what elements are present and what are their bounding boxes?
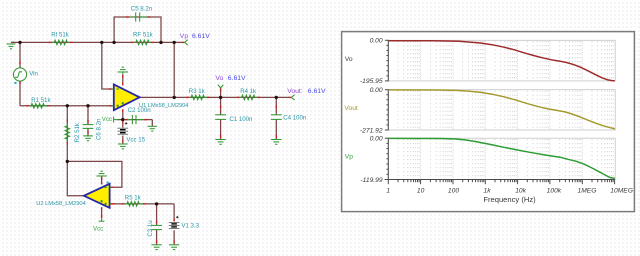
svg-text:R5 1k: R5 1k xyxy=(125,194,142,201)
wire output row xyxy=(140,96,290,98)
svg-text:C4 100n: C4 100n xyxy=(283,114,306,121)
svg-text:RF 51k: RF 51k xyxy=(133,32,154,39)
junction R1-R2 xyxy=(66,104,69,107)
junction node Vo xyxy=(219,96,222,99)
voltage source Vin xyxy=(13,62,26,85)
wire C6 branch xyxy=(87,106,89,136)
resistor R1 xyxy=(26,104,50,109)
svg-text:U2 LMx58_LM2904: U2 LMx58_LM2904 xyxy=(36,201,86,207)
ground below C3 xyxy=(151,244,161,246)
svg-text:1: 1 xyxy=(386,187,390,194)
terminal Vp xyxy=(182,40,188,45)
svg-text:6.61V: 6.61V xyxy=(192,33,210,40)
ground below C1 xyxy=(215,139,225,141)
svg-text:-119.99: -119.99 xyxy=(360,177,382,184)
svg-text:10: 10 xyxy=(417,187,425,194)
ground below Vcc15 xyxy=(118,143,128,145)
svg-text:V1 3.3: V1 3.3 xyxy=(181,222,199,229)
svg-text:6.61V: 6.61V xyxy=(228,75,246,82)
wire C4 stub xyxy=(275,97,277,114)
svg-text:1k: 1k xyxy=(484,187,492,194)
svg-text:1MEG: 1MEG xyxy=(578,187,597,194)
wire U2 power pins xyxy=(101,176,103,218)
svg-text:-195.95: -195.95 xyxy=(360,78,383,85)
wire C4 to ground xyxy=(275,120,277,140)
wire U2 output to feedback node xyxy=(67,161,84,195)
svg-text:0.00: 0.00 xyxy=(370,38,383,45)
svg-text:Vout: Vout xyxy=(344,105,358,112)
capacitor C4 xyxy=(271,106,282,138)
svg-text:C5 8.2n: C5 8.2n xyxy=(131,5,152,12)
op-amp U2 LMx58_LM2904 xyxy=(84,182,113,210)
capacitor C5 xyxy=(126,12,150,21)
svg-text:R3 1k: R3 1k xyxy=(189,88,206,95)
capacitor C2 xyxy=(125,115,146,124)
svg-text:Vo: Vo xyxy=(215,75,223,82)
svg-text:6.61V: 6.61V xyxy=(308,88,326,95)
svg-text:R4 1k: R4 1k xyxy=(240,88,257,95)
junction node Vout xyxy=(275,96,278,99)
svg-text:0.00: 0.00 xyxy=(370,136,383,143)
wire R1 row xyxy=(20,105,114,107)
terminal Vo xyxy=(218,85,223,91)
terminal Vout xyxy=(289,95,295,100)
junction R5-C3-V1 xyxy=(155,202,158,205)
capacitor C3 vertical xyxy=(151,221,162,243)
svg-text:10k: 10k xyxy=(515,187,526,194)
svg-text:Vout:: Vout: xyxy=(287,88,303,95)
plot x-axis xyxy=(385,179,615,181)
junction rail-inverting-input xyxy=(100,41,103,44)
ground below V1 xyxy=(169,244,179,246)
svg-text:Vp: Vp xyxy=(345,153,353,160)
curve Vo dark red xyxy=(389,41,615,81)
junction rail-output, node Vp xyxy=(173,41,176,44)
capacitor C6 vertical xyxy=(83,120,94,133)
svg-text:RI 51k: RI 51k xyxy=(51,32,70,39)
capacitor C1 xyxy=(215,106,226,138)
resistor R5 xyxy=(113,202,146,207)
svg-text:-271.92: -271.92 xyxy=(360,127,383,134)
ground above U1 xyxy=(118,67,128,77)
junction rail-Vin xyxy=(18,41,21,44)
wire C3 branch xyxy=(156,204,158,245)
ground GND1 top-left xyxy=(7,42,16,48)
svg-text:100: 100 xyxy=(448,187,459,194)
wire Vo stub xyxy=(220,88,222,114)
wire R2 branch xyxy=(66,106,68,162)
svg-text:C1 100n: C1 100n xyxy=(229,116,252,123)
svg-text:10MEG: 10MEG xyxy=(610,187,633,194)
wire top rail xyxy=(11,41,183,43)
svg-text:0.00: 0.00 xyxy=(370,87,383,94)
wire battery Vcc15 stubs xyxy=(122,120,124,144)
plot subplot frames and grid xyxy=(388,40,615,81)
wire C1 to ground xyxy=(220,120,222,140)
ground above U2 xyxy=(96,171,106,180)
wire rail to output node xyxy=(173,42,175,97)
svg-text:Vcc: Vcc xyxy=(102,116,112,123)
curve Vp green xyxy=(389,138,615,178)
wire U2 feedback loop xyxy=(67,161,122,187)
resistor RF xyxy=(131,40,154,45)
svg-text:Frequency (Hz): Frequency (Hz) xyxy=(483,195,536,204)
terminal Vcc below U2 xyxy=(99,215,105,221)
junction R2-U2-output xyxy=(66,160,69,163)
wire C2 ground stub xyxy=(151,120,153,126)
svg-text:C3 1u: C3 1u xyxy=(147,220,154,236)
wire C2 row xyxy=(117,119,153,121)
resistor R3 xyxy=(186,95,209,100)
ground below C4 xyxy=(271,139,281,141)
op-amp U1 LMx58_LM2904 xyxy=(109,83,140,112)
wire R5 row xyxy=(110,203,174,205)
svg-text:Vcc 15: Vcc 15 xyxy=(126,137,145,144)
ground below C6 xyxy=(83,135,93,137)
svg-text:Vo: Vo xyxy=(345,56,353,63)
plot y-axes and labels xyxy=(387,40,389,82)
svg-text:R2 51k: R2 51k xyxy=(74,122,81,142)
svg-text:C2 100n: C2 100n xyxy=(128,107,151,114)
terminal Vcc at C2 node xyxy=(114,117,120,123)
junction rail-C5-right xyxy=(159,41,162,44)
ground right of C2 xyxy=(148,125,157,127)
resistor RI xyxy=(49,40,73,45)
wire inverting input from rail xyxy=(102,42,114,89)
resistor R2 vertical xyxy=(65,119,70,144)
wire V1 branch xyxy=(173,204,175,245)
svg-text:R1 51k: R1 51k xyxy=(31,97,51,104)
curve Vout olive xyxy=(389,90,615,129)
battery Vcc 15 xyxy=(118,121,129,142)
wire Vin branch vertical xyxy=(19,42,21,105)
plot panel frame xyxy=(342,32,635,212)
svg-text:Vin: Vin xyxy=(29,71,38,78)
junction output-R3 xyxy=(173,96,176,99)
wire C5 feedback loop xyxy=(114,17,161,42)
svg-text:Vp: Vp xyxy=(180,33,189,40)
resistor R4 xyxy=(237,95,260,100)
wire U1 power pins xyxy=(122,75,124,120)
svg-text:100k: 100k xyxy=(547,187,562,194)
junction R1-C6 xyxy=(86,104,89,107)
junction U1-V+ / C2 / Vcc xyxy=(121,118,124,121)
svg-text:Vcc: Vcc xyxy=(93,225,103,232)
junction rail-C5-left xyxy=(112,41,115,44)
battery V1 3.3 xyxy=(169,216,180,243)
